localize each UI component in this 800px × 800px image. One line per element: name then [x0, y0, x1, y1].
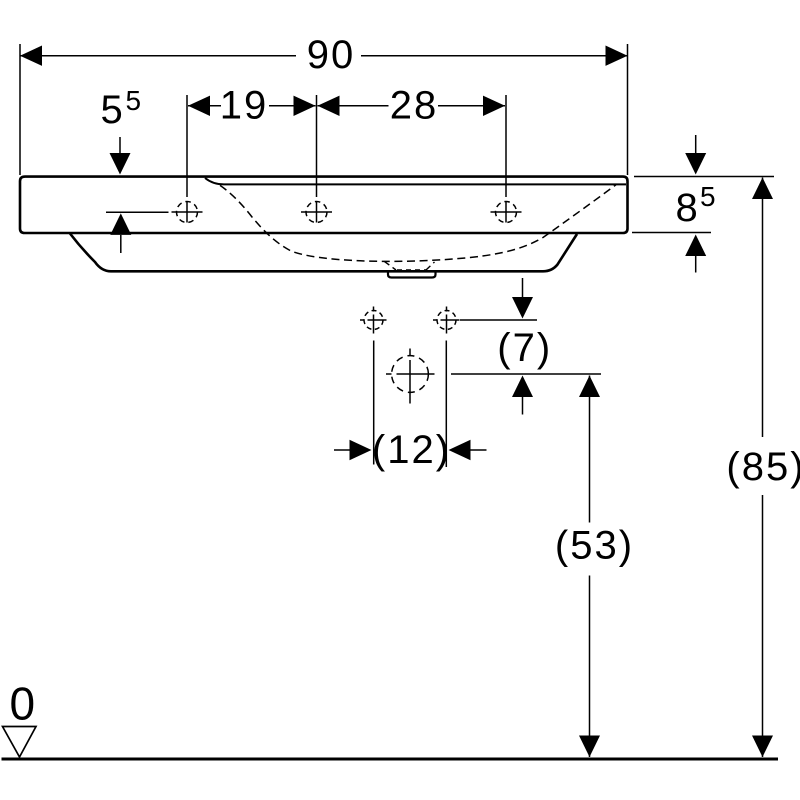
dimension 19 arrow left	[188, 96, 210, 116]
dimension 28 arrow left	[318, 96, 340, 116]
dimension 7 arrow down	[522, 278, 524, 297]
tap hole extension line right	[505, 95, 507, 197]
dimension 7 line top	[460, 319, 537, 321]
dimension 8.5 arrow up	[685, 235, 706, 257]
dimension 85 arrow up	[752, 178, 773, 200]
mixer hole symbol	[386, 349, 435, 404]
svg-text:5: 5	[700, 181, 716, 212]
fixing hole symbol left	[360, 307, 387, 334]
washbasin slab outline	[20, 177, 628, 233]
tap hole extension line left	[186, 95, 188, 197]
tap hole symbol left	[172, 202, 203, 223]
basin interior dashed curve	[220, 185, 616, 262]
svg-text:90: 90	[307, 33, 356, 77]
ground line	[2, 758, 779, 761]
svg-text:(53): (53)	[555, 523, 634, 567]
dimension 90 extension line left	[19, 44, 21, 175]
dimension 53 line	[589, 376, 591, 523]
dimension 7 arrow up	[512, 376, 533, 398]
svg-text:(12): (12)	[372, 428, 451, 472]
dimension 8.5 arrow down	[695, 135, 697, 154]
svg-text:(7): (7)	[497, 326, 552, 370]
tap hole extension line middle	[316, 95, 318, 197]
svg-text:8: 8	[676, 186, 698, 230]
basin rim line	[205, 178, 626, 184]
dimension 53 arrow up	[579, 376, 600, 398]
dimension 5.5 arrow down	[119, 137, 121, 156]
dimension 12 arrow right	[449, 440, 471, 460]
dimension 12 extension line left	[373, 341, 375, 465]
datum triangle	[3, 727, 37, 758]
tap hole symbol right	[491, 202, 522, 223]
dimension 5.5 level line	[106, 211, 169, 213]
svg-text:28: 28	[390, 83, 439, 127]
dimension 90 arrow right	[606, 46, 628, 66]
dimension 85 arrow down	[752, 736, 773, 758]
washbasin bowl outline	[70, 234, 577, 272]
dimension 12 arrow left	[334, 449, 350, 451]
fixing hole symbol right	[433, 307, 460, 334]
dimension 8.5 extension line top	[634, 176, 774, 178]
dimension 85 line	[762, 178, 764, 438]
svg-text:0: 0	[10, 678, 36, 730]
dimension 19 arrow right	[294, 96, 316, 116]
dimension 8.5 extension line bottom	[632, 232, 711, 234]
dimension 90 arrow left	[20, 46, 42, 66]
svg-text:5: 5	[126, 85, 142, 116]
dimension 5.5 arrow up	[110, 213, 131, 235]
dimension 90 line	[20, 55, 296, 57]
tap hole symbol middle	[301, 202, 332, 223]
svg-text:5: 5	[101, 88, 123, 132]
dimension 19 line	[188, 105, 221, 107]
dimension 28 line	[318, 105, 389, 107]
dimension 53 arrow down	[579, 736, 600, 758]
drain funnel dashed	[385, 262, 397, 271]
dimension 28 arrow right	[483, 96, 505, 116]
svg-text:(85): (85)	[726, 445, 800, 489]
svg-text:19: 19	[220, 83, 269, 127]
dimension 90 extension line right	[627, 44, 629, 175]
drain outlet bracket	[388, 272, 436, 278]
dimension 7 line bottom	[451, 373, 601, 375]
dimension 12 extension line right	[445, 341, 447, 468]
